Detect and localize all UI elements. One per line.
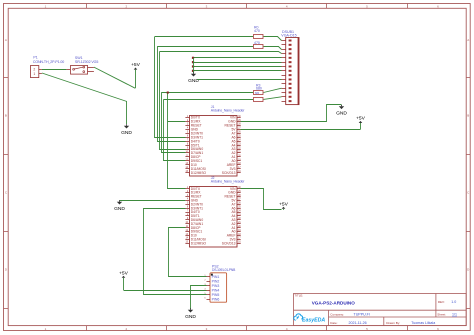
svg-text:1/1: 1/1 bbox=[452, 312, 457, 316]
svg-text:GND: GND bbox=[114, 206, 125, 212]
svg-text:GND: GND bbox=[336, 111, 347, 117]
svg-text:+5V: +5V bbox=[131, 62, 141, 68]
svg-text:+5V: +5V bbox=[119, 270, 129, 276]
svg-text:1: 1 bbox=[33, 72, 35, 76]
svg-text:GND: GND bbox=[188, 78, 199, 84]
svg-text:EasyEDA: EasyEDA bbox=[302, 317, 325, 323]
svg-text:Date:: Date: bbox=[330, 321, 337, 325]
svg-text:DS-1091-01-PNB: DS-1091-01-PNB bbox=[212, 268, 236, 272]
svg-text:PIN5: PIN5 bbox=[212, 293, 220, 297]
svg-text:PIN1: PIN1 bbox=[212, 275, 220, 279]
svg-text:GND: GND bbox=[185, 314, 196, 320]
svg-text:Sheet:: Sheet: bbox=[437, 312, 446, 316]
svg-text:2021-11-26: 2021-11-26 bbox=[349, 321, 367, 325]
svg-text:GND: GND bbox=[121, 130, 132, 136]
svg-text:PIN2: PIN2 bbox=[212, 279, 220, 283]
svg-text:470: 470 bbox=[254, 29, 260, 33]
svg-text:REV:: REV: bbox=[438, 300, 445, 304]
svg-text:+5V: +5V bbox=[356, 116, 366, 122]
svg-text:D12/MISO: D12/MISO bbox=[191, 241, 207, 245]
svg-text:CONN-TH_2P-P1.00: CONN-TH_2P-P1.00 bbox=[33, 60, 64, 64]
svg-text:VGA-D15: VGA-D15 bbox=[281, 34, 296, 38]
svg-text:A: A bbox=[5, 38, 7, 42]
svg-text:TITLE:: TITLE: bbox=[294, 294, 303, 298]
svg-text:SCK/D13: SCK/D13 bbox=[222, 171, 236, 175]
svg-text:Tuomas Liikala: Tuomas Liikala bbox=[411, 321, 435, 325]
svg-text:B: B bbox=[467, 114, 469, 118]
svg-text:B: B bbox=[5, 114, 7, 118]
svg-text:TUPPU.FI: TUPPU.FI bbox=[354, 312, 370, 316]
svg-text:A: A bbox=[467, 38, 469, 42]
svg-text:SCK/D13: SCK/D13 bbox=[222, 241, 236, 245]
svg-text:1.0: 1.0 bbox=[451, 300, 456, 304]
svg-text:680: 680 bbox=[255, 92, 260, 95]
svg-text:PIN3: PIN3 bbox=[212, 284, 220, 288]
svg-text:SR-1Z002 VG5: SR-1Z002 VG5 bbox=[75, 60, 98, 64]
svg-text:VGA-PS2-ARDUINO: VGA-PS2-ARDUINO bbox=[312, 300, 356, 305]
svg-text:680: 680 bbox=[256, 87, 262, 91]
svg-text:Arduino_Nano_Header: Arduino_Nano_Header bbox=[211, 179, 245, 183]
svg-text:Drawn By:: Drawn By: bbox=[386, 321, 400, 325]
svg-text:PIN4: PIN4 bbox=[212, 288, 220, 292]
svg-text:Company:: Company: bbox=[330, 312, 344, 316]
svg-text:PIN6: PIN6 bbox=[212, 297, 220, 301]
svg-text:+5V: +5V bbox=[279, 201, 289, 207]
svg-text:Arduino_Nano_Header: Arduino_Nano_Header bbox=[211, 108, 245, 112]
svg-text:D12/MISO: D12/MISO bbox=[191, 171, 207, 175]
